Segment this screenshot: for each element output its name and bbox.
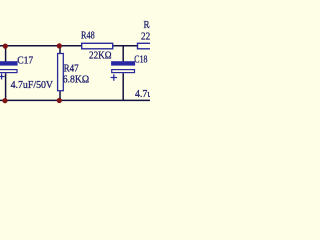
- svg-text:R48: R48: [81, 30, 95, 42]
- wire: R47 top stub: [59, 46, 61, 53]
- wire: C18 bottom stub: [122, 73, 124, 100]
- wire: top rail left segment: [0, 45, 81, 47]
- wire: bottom rail: [0, 99, 150, 101]
- svg-text:6.8KΩ: 6.8KΩ: [63, 74, 90, 86]
- junction dot bottom-left: [2, 98, 7, 103]
- junction dot bottom-middle: [57, 98, 62, 103]
- resistor R47 (vertical box): [58, 54, 64, 91]
- resistor R48 (horizontal box): [82, 43, 113, 49]
- svg-text:4.7uF/50V: 4.7uF/50V: [135, 89, 150, 101]
- wire: top rail right segment (R48 to R49): [113, 45, 137, 47]
- capacitor C18 plus sign: [111, 74, 117, 80]
- capacitor C18 bottom plate (hollow): [112, 70, 135, 73]
- sheet background: [0, 0, 150, 146]
- capacitor C17 top plate (filled): [0, 61, 18, 65]
- capacitor C18 top plate (filled): [111, 61, 135, 65]
- wire: C17 top stub: [5, 46, 7, 62]
- svg-text:22KΩ: 22KΩ: [141, 31, 150, 43]
- junction dot top-left: [3, 44, 8, 49]
- svg-text:C18: C18: [134, 53, 147, 66]
- svg-text:22KΩ: 22KΩ: [89, 50, 112, 62]
- capacitor C17 plus sign: [0, 74, 5, 80]
- svg-text:C17: C17: [17, 55, 33, 67]
- svg-text:4.7uF/50V: 4.7uF/50V: [11, 79, 54, 91]
- wire: R47 bottom stub: [59, 91, 61, 100]
- svg-text:R47: R47: [64, 63, 79, 75]
- wire: C17 bottom stub: [5, 73, 7, 100]
- wire: C18 top stub from tee: [122, 46, 124, 62]
- junction dot top-middle: [57, 43, 62, 48]
- capacitor C17 bottom plate (hollow): [0, 70, 17, 73]
- resistor R49 (clipped at right edge): [138, 43, 154, 49]
- svg-text:R49: R49: [144, 19, 151, 31]
